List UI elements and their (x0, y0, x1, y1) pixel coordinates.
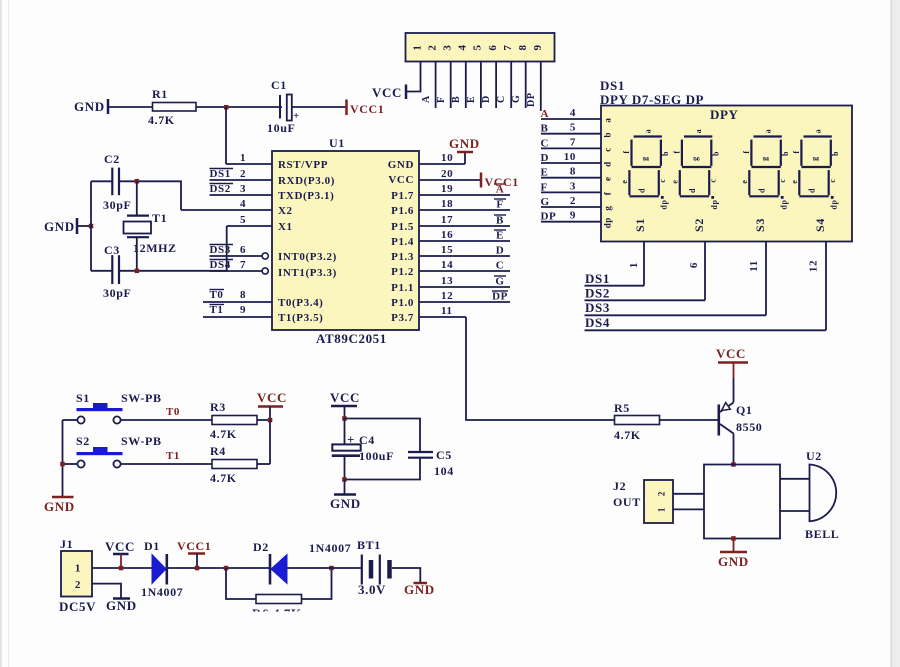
wire (257, 463, 270, 465)
svg-text:f: f (742, 150, 751, 153)
svg-text:20: 20 (441, 168, 453, 180)
wire (269, 420, 271, 464)
node (731, 462, 736, 467)
svg-text:13: 13 (441, 275, 453, 287)
svg-text:INT0(P3.2): INT0(P3.2) (278, 251, 337, 263)
digit segment glyph S2 (670, 129, 720, 210)
wire pin11 (419, 305, 466, 317)
svg-text:VCC: VCC (105, 539, 135, 554)
svg-text:GND: GND (404, 582, 435, 597)
wire display pin g / net G (541, 195, 613, 211)
svg-text:F: F (541, 181, 548, 193)
display DS1 DPY D7-SEG DP body (600, 78, 852, 242)
svg-text:S2: S2 (692, 218, 706, 232)
wire (660, 419, 719, 421)
svg-text:dp: dp (779, 199, 788, 209)
svg-text:e: e (620, 179, 629, 183)
wire pin14 net C (419, 259, 510, 272)
power port VCC (keys) (257, 390, 287, 420)
ground GND (input) (106, 598, 137, 613)
resistor R4 (210, 444, 257, 485)
svg-text:1N4007: 1N4007 (309, 541, 351, 555)
power port VCC (decoupling) (330, 390, 360, 419)
svg-text:1: 1 (657, 507, 667, 512)
svg-text:R1: R1 (152, 87, 168, 101)
svg-text:dp: dp (710, 199, 719, 209)
wire S2 to DS2 (688, 242, 705, 301)
wire pin13 net G (419, 275, 510, 288)
svg-text:DPY: DPY (710, 107, 739, 122)
node (135, 179, 140, 184)
wire (345, 419, 421, 453)
svg-text:+: + (347, 432, 355, 447)
svg-text:B: B (496, 215, 504, 227)
svg-text:1: 1 (240, 152, 246, 164)
svg-text:RST/VPP: RST/VPP (278, 159, 328, 171)
svg-text:B: B (541, 123, 549, 135)
node (268, 418, 273, 423)
svg-text:DS4: DS4 (210, 259, 231, 271)
wire pin9 (540, 62, 542, 112)
svg-text:VCC1: VCC1 (350, 102, 384, 116)
digit segment glyph S1 (620, 129, 670, 210)
svg-text:e: e (740, 179, 749, 183)
svg-text:E: E (541, 167, 549, 179)
svg-text:T1: T1 (210, 304, 224, 316)
wire display pin f / net F (541, 180, 613, 195)
wire S3 to DS3 (748, 242, 766, 316)
wire pin15 net D (419, 244, 510, 257)
svg-text:1: 1 (628, 262, 640, 268)
svg-text:8: 8 (517, 44, 529, 50)
svg-text:1N4007: 1N4007 (141, 585, 183, 599)
resistor R5 (614, 401, 660, 442)
svg-text:5: 5 (472, 44, 484, 50)
wire net DS2 (585, 286, 706, 301)
svg-text:4.7K: 4.7K (210, 471, 237, 485)
node (119, 566, 124, 571)
wire (287, 567, 362, 569)
svg-text:F: F (496, 199, 503, 211)
svg-text:R5: R5 (614, 401, 630, 415)
wire pin3 (450, 62, 452, 109)
svg-text:4: 4 (240, 198, 246, 210)
wire pin9 T1 (203, 304, 272, 317)
svg-text:DS3: DS3 (585, 300, 610, 315)
svg-text:P1.1: P1.1 (391, 282, 414, 294)
svg-text:c: c (658, 178, 667, 182)
svg-text:17: 17 (441, 214, 453, 226)
wire net T0 (121, 406, 212, 420)
switch S2 SW-PB (76, 434, 162, 468)
svg-text:e: e (603, 176, 613, 181)
svg-text:VCC: VCC (388, 174, 414, 186)
wire bell top (780, 478, 810, 480)
wire net DS3 (585, 300, 767, 315)
svg-text:b: b (661, 151, 670, 156)
svg-text:3: 3 (442, 44, 454, 50)
wire (91, 180, 112, 182)
svg-text:P1.0: P1.0 (391, 297, 414, 309)
svg-text:6: 6 (240, 244, 246, 256)
svg-text:C4: C4 (359, 433, 375, 447)
wire (keys common) (62, 420, 64, 497)
svg-text:X1: X1 (278, 221, 293, 233)
diode D1 1N4007 (141, 539, 183, 599)
wire display pin a / net A (541, 107, 613, 123)
svg-text:1: 1 (75, 563, 81, 575)
wire S1 to DS1 (628, 242, 644, 286)
resistor R6 (bypass) (252, 595, 302, 622)
connector J2 OUT (613, 479, 673, 523)
svg-text:30pF: 30pF (103, 198, 131, 212)
svg-text:T1: T1 (152, 211, 167, 225)
svg-text:10: 10 (564, 151, 576, 163)
svg-text:2: 2 (657, 491, 667, 496)
svg-text:DS2: DS2 (210, 183, 231, 195)
svg-text:9: 9 (532, 44, 544, 50)
svg-text:g: g (603, 205, 613, 210)
svg-text:6: 6 (688, 262, 700, 268)
svg-text:T1: T1 (166, 450, 180, 462)
svg-text:4: 4 (457, 44, 469, 50)
svg-text:DS4: DS4 (585, 315, 610, 330)
svg-text:GND: GND (44, 219, 75, 234)
resistor R1 (148, 87, 196, 127)
svg-text:3: 3 (570, 180, 576, 192)
svg-text:9: 9 (570, 210, 576, 222)
svg-text:12: 12 (441, 290, 453, 302)
wire pin8 T0 (203, 289, 272, 302)
svg-text:8: 8 (240, 289, 246, 301)
svg-text:c: c (828, 178, 837, 182)
wire pin7 DS4 (inverted) (210, 259, 269, 274)
svg-text:b: b (831, 151, 840, 156)
svg-text:3.0V: 3.0V (358, 582, 386, 597)
svg-text:J1: J1 (60, 537, 73, 551)
wire pin12 net DP (419, 290, 510, 303)
wire pin11 to R5 (466, 317, 615, 420)
svg-text:C3: C3 (104, 243, 120, 257)
svg-text:C: C (496, 95, 507, 103)
svg-text:f: f (672, 150, 681, 153)
ground GND (decoupling) (330, 480, 361, 512)
wire bypass (226, 568, 256, 599)
svg-text:Q1: Q1 (736, 403, 753, 417)
svg-text:T0(P3.4): T0(P3.4) (278, 297, 323, 309)
svg-text:GND: GND (718, 554, 749, 569)
svg-text:3: 3 (240, 183, 246, 195)
wire display pin c / net C (541, 136, 613, 151)
svg-text:d: d (603, 161, 613, 167)
svg-text:b: b (603, 132, 613, 138)
svg-text:U2: U2 (806, 449, 822, 463)
svg-text:INT1(P3.3): INT1(P3.3) (278, 267, 337, 279)
svg-text:J2: J2 (613, 479, 626, 493)
svg-text:GND: GND (74, 99, 105, 114)
wire display pin dp / net DP (541, 210, 613, 229)
wire (119, 226, 227, 271)
svg-text:e: e (670, 179, 679, 183)
svg-text:2: 2 (75, 579, 81, 591)
svg-text:DP: DP (492, 291, 508, 303)
svg-text:11: 11 (748, 260, 760, 272)
svg-text:C: C (541, 137, 550, 149)
svg-text:C5: C5 (436, 448, 452, 462)
svg-text:GND: GND (449, 136, 480, 151)
svg-text:4.7K: 4.7K (210, 427, 237, 441)
power port VCC (Q1) (716, 346, 748, 363)
wire pin10 + ground GND (419, 136, 480, 164)
svg-text:18: 18 (441, 198, 453, 210)
svg-text:DP: DP (541, 211, 557, 223)
svg-text:4.7K: 4.7K (614, 428, 641, 442)
svg-text:d: d (638, 188, 647, 193)
buzzer U2 BELL (805, 449, 839, 541)
node (731, 536, 736, 541)
ground GND (bell) (718, 539, 749, 570)
wire pin2 (435, 62, 437, 109)
svg-text:15: 15 (441, 244, 453, 256)
svg-text:C1: C1 (271, 78, 287, 92)
svg-text:T1(P3.5): T1(P3.5) (278, 312, 323, 324)
svg-text:D: D (481, 95, 492, 103)
svg-text:A: A (496, 184, 505, 196)
svg-text:VCC: VCC (257, 390, 287, 405)
svg-text:5: 5 (570, 122, 576, 134)
svg-text:P1.5: P1.5 (391, 221, 414, 233)
svg-text:c: c (708, 178, 717, 182)
wire (63, 463, 78, 465)
svg-text:X2: X2 (278, 205, 293, 217)
svg-text:g: g (640, 156, 649, 161)
svg-text:D: D (541, 152, 550, 164)
svg-text:104: 104 (434, 464, 454, 478)
svg-text:F: F (436, 96, 447, 103)
svg-text:c: c (778, 178, 787, 182)
node (89, 224, 94, 229)
svg-text:g: g (690, 156, 699, 161)
diode D2 1N4007 (253, 540, 351, 585)
wire pin5 X1 (227, 214, 272, 226)
svg-text:2: 2 (570, 195, 576, 207)
wire pin6 (495, 62, 497, 109)
svg-text:DS1: DS1 (600, 78, 625, 93)
svg-text:5: 5 (240, 214, 246, 226)
svg-text:S3: S3 (753, 218, 767, 232)
svg-text:S4: S4 (813, 218, 827, 232)
op-amp U1 AT89C2051 body (272, 136, 419, 346)
svg-text:12: 12 (808, 260, 820, 272)
svg-text:f: f (603, 191, 613, 195)
wire S4 to DS4 (808, 242, 827, 331)
wire (406, 62, 421, 92)
power port VCC1 (top) (347, 100, 385, 117)
svg-text:TXD(P3.1): TXD(P3.1) (278, 190, 334, 202)
wire (92, 567, 152, 569)
svg-text:GND: GND (106, 598, 137, 613)
svg-text:P1.6: P1.6 (391, 205, 414, 217)
svg-text:a: a (644, 129, 653, 134)
wire pin3 DS2 (210, 183, 273, 195)
wire pin1 (226, 152, 272, 164)
svg-text:DP: DP (526, 92, 537, 107)
svg-text:8550: 8550 (736, 420, 762, 434)
svg-text:E: E (496, 230, 504, 242)
connector JP (9-pin header) (406, 33, 555, 62)
svg-text:DS2: DS2 (585, 286, 610, 301)
svg-text:R3: R3 (210, 400, 226, 414)
svg-text:GND: GND (44, 499, 75, 514)
svg-text:2: 2 (240, 168, 246, 180)
svg-text:VCC: VCC (716, 346, 746, 361)
svg-text:GND: GND (388, 159, 414, 171)
capacitor C4 (332, 419, 394, 480)
connector J1 DC5V (59, 537, 96, 614)
capacitor C5 (408, 448, 454, 478)
svg-text:a: a (813, 129, 822, 134)
wire pin4 X2 (181, 198, 272, 210)
svg-text:GND: GND (330, 496, 361, 511)
svg-text:DS3: DS3 (210, 244, 231, 256)
wire pin7 (510, 62, 512, 109)
svg-text:dp: dp (603, 217, 613, 228)
svg-text:dp: dp (660, 199, 669, 209)
ground GND (keys) (44, 497, 75, 514)
wire (left rail) (90, 181, 92, 270)
node (bypass right) (329, 566, 334, 571)
svg-text:G: G (511, 95, 522, 103)
svg-text:A: A (541, 108, 550, 120)
svg-text:RXD(P3.0): RXD(P3.0) (278, 175, 335, 187)
svg-text:B: B (451, 96, 462, 103)
wire (292, 106, 347, 108)
svg-text:f: f (792, 150, 801, 153)
wire display pin d / net D (541, 151, 613, 167)
wire pin5 (480, 62, 482, 109)
svg-text:SW-PB: SW-PB (121, 434, 162, 448)
svg-text:C: C (496, 260, 505, 272)
svg-text:OUT: OUT (613, 495, 641, 509)
svg-text:12MHZ: 12MHZ (133, 241, 177, 255)
node (60, 462, 64, 467)
svg-text:g: g (760, 156, 769, 161)
wire bridge rails (704, 465, 780, 539)
wire J2 pin2 (673, 493, 704, 495)
svg-text:VCC: VCC (372, 85, 402, 100)
node (135, 269, 140, 274)
svg-text:SW-PB: SW-PB (121, 391, 162, 405)
wire pin18 net F (419, 198, 510, 211)
svg-text:e: e (790, 179, 799, 183)
digit segment glyph S3 (740, 129, 790, 210)
wire (167, 567, 270, 569)
svg-text:G: G (541, 196, 550, 208)
svg-text:b: b (711, 151, 720, 156)
wire net DS1 (585, 271, 645, 286)
svg-text:R4: R4 (210, 444, 226, 458)
svg-text:10uF: 10uF (267, 121, 295, 135)
svg-text:g: g (810, 156, 819, 161)
node (bypass left) (224, 566, 229, 571)
svg-text:AT89C2051: AT89C2051 (316, 331, 387, 346)
wire display pin e / net E (541, 166, 613, 181)
svg-text:1: 1 (412, 44, 424, 50)
node (195, 566, 200, 571)
capacitor C1 (267, 78, 300, 135)
svg-text:b: b (781, 151, 790, 156)
power port VCC1 (input) (177, 539, 211, 568)
wire net T1 (121, 450, 212, 464)
ground GND (battery) (404, 582, 435, 597)
svg-text:S1: S1 (633, 218, 647, 232)
svg-text:f: f (622, 150, 631, 153)
svg-text:G: G (495, 276, 504, 288)
wire display pin b / net B (541, 122, 613, 138)
svg-text:c: c (603, 147, 613, 152)
svg-text:C2: C2 (104, 152, 120, 166)
svg-text:dp: dp (829, 199, 838, 209)
wire (119, 181, 181, 210)
svg-text:S2: S2 (76, 434, 90, 448)
svg-text:P1.4: P1.4 (391, 236, 414, 248)
capacitor C2 (103, 152, 131, 212)
svg-text:7: 7 (502, 44, 514, 50)
switch S1 SW-PB (76, 391, 162, 424)
svg-text:D1: D1 (144, 539, 160, 553)
svg-text:P3.7: P3.7 (391, 312, 414, 324)
svg-text:30pF: 30pF (103, 286, 131, 300)
power port VCC (top connector) (372, 85, 406, 101)
wire (733, 363, 735, 379)
wire J1 pin2 (92, 584, 121, 599)
wire (91, 270, 112, 272)
wire J2 pin1 (673, 508, 704, 510)
svg-text:19: 19 (441, 183, 453, 195)
svg-text:16: 16 (441, 229, 453, 241)
wire pin8 (525, 62, 527, 109)
svg-text:S1: S1 (76, 391, 90, 405)
node (342, 416, 347, 421)
wire (733, 434, 735, 465)
wire (345, 458, 421, 480)
svg-text:DC5V: DC5V (59, 599, 96, 614)
wire (108, 106, 152, 108)
wire (392, 568, 421, 583)
svg-text:d: d (757, 188, 766, 193)
svg-text:4: 4 (570, 107, 576, 119)
wire (257, 419, 270, 421)
svg-text:a: a (603, 117, 613, 122)
wire (225, 107, 227, 164)
svg-text:T0: T0 (210, 289, 224, 301)
wire pin19 net A (419, 183, 510, 196)
wire pin17 net B (419, 214, 510, 227)
svg-text:4.7K: 4.7K (148, 113, 175, 127)
wire pin2 DS1 (210, 168, 273, 180)
capacitor C3 (103, 243, 131, 300)
wire net DS4 (585, 315, 827, 331)
svg-text:10: 10 (441, 152, 453, 164)
svg-text:7: 7 (240, 259, 246, 271)
svg-text:d: d (688, 188, 697, 193)
svg-text:DS1: DS1 (585, 271, 610, 286)
wire bypass right (302, 568, 332, 599)
svg-text:6: 6 (487, 44, 499, 50)
digit segment glyph S4 (790, 129, 840, 210)
svg-text:BT1: BT1 (357, 538, 381, 552)
svg-text:7: 7 (570, 136, 576, 148)
